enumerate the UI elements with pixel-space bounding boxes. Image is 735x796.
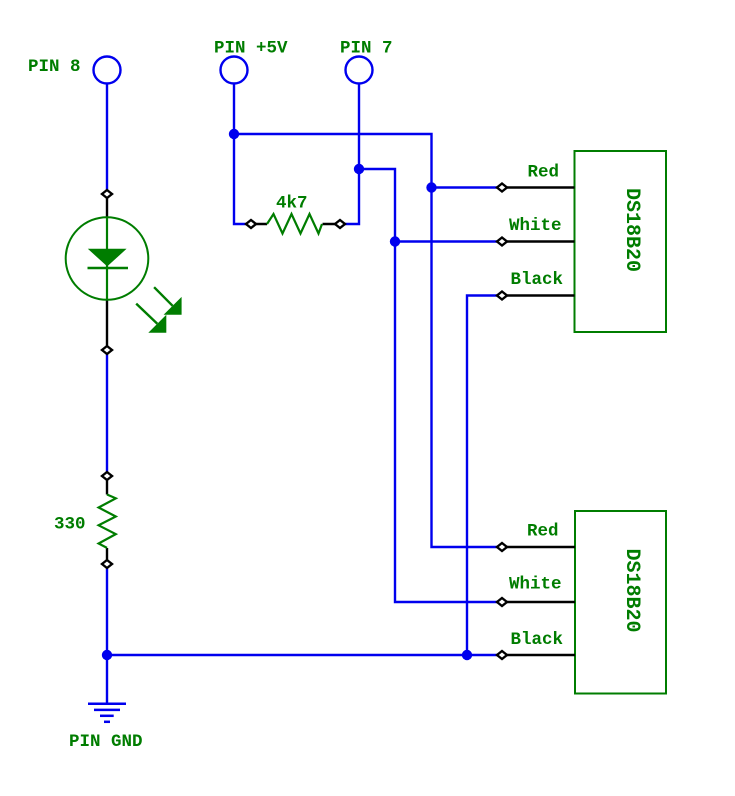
svg-text:Black: Black [511,270,564,290]
svg-text:DS18B20: DS18B20 [620,549,643,633]
ground symbol [88,704,126,722]
node junction ground rail left [102,650,112,660]
pin terminal PIN 8 [94,57,121,84]
svg-text:PIN GND: PIN GND [69,732,143,752]
IC U2 red pin lead [507,546,575,548]
IC U1 black pin lead [507,294,575,296]
wire R330 to ground [106,564,108,703]
IC U1 red pin lead [507,186,575,188]
IC U1 red pin diamond [497,184,507,192]
LED D1 [66,190,182,350]
wire branch to top white pin [395,240,502,242]
IC U2 black pin lead [507,654,575,656]
svg-text:Black: Black [511,630,564,650]
LED top pin diamond [102,190,112,198]
IC U1 black pin diamond [497,292,507,300]
IC U2 DS18B20 bottom box [575,511,666,694]
wire PIN7 down to 4k7 [340,84,359,224]
node junction +5V rail [229,129,239,139]
IC U1 white pin lead [507,240,575,242]
wire PIN8 to LED [106,84,108,195]
svg-text:330: 330 [54,515,86,535]
svg-text:White: White [509,216,562,236]
IC U2 white pin lead [507,601,575,603]
node junction data net [354,164,364,174]
svg-text:PIN +5V: PIN +5V [214,39,288,59]
svg-text:4k7: 4k7 [276,194,308,214]
IC U2 black pin diamond [497,651,507,659]
wire ground rail to DS18B20 black pins [107,654,502,656]
resistor R 4k7 [251,214,340,234]
wire +5V down to 4k7 [234,84,251,224]
wire +5V rail to red pins [234,134,502,547]
svg-text:PIN 8: PIN 8 [28,57,81,77]
IC U1 white pin diamond [497,238,507,246]
svg-text:Red: Red [527,522,559,542]
svg-text:White: White [509,575,562,595]
resistor R330 top pin diamond [102,472,112,480]
pin terminal PIN 7 [346,57,373,84]
wire data net to white pins [359,169,502,602]
svg-text:Red: Red [528,163,560,183]
svg-text:PIN 7: PIN 7 [340,39,393,59]
IC U2 white pin diamond [497,598,507,606]
node junction ground rail right [462,650,472,660]
LED bottom pin diamond [102,346,112,354]
IC U1 DS18B20 top box [575,151,667,332]
resistor R330 bottom pin diamond [102,560,112,568]
pin terminal PIN +5V [221,57,248,84]
IC U2 red pin diamond [497,543,507,551]
resistor R330 [99,476,116,564]
wire branch to top red pin [432,186,503,188]
resistor 4k7 left pin diamond [246,220,256,228]
resistor 4k7 right pin diamond [335,220,345,228]
node junction red net [426,182,436,192]
svg-text:DS18B20: DS18B20 [620,188,643,272]
wire LED to R330 [106,350,108,476]
node junction white net [390,236,400,246]
wire top black pin to ground rail [467,296,502,656]
